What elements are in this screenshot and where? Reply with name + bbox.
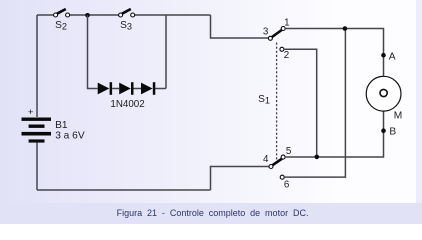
- motor M: [366, 76, 401, 111]
- svg-text:M: M: [394, 111, 403, 122]
- battery B1: [22, 118, 52, 143]
- wire: top rail, S3 to right corner: [135, 14, 211, 16]
- wire: left vertical from top rail to battery +: [36, 15, 38, 117]
- node: junction wire1 / wire6: [343, 26, 348, 31]
- wire: diode branch right riser: [165, 15, 167, 89]
- wire: contact 6 up to node on wire 1: [284, 29, 345, 178]
- wire: diode branch left drop: [88, 15, 98, 89]
- svg-text:6: 6: [284, 179, 290, 190]
- wire: top-right step down to pole 3: [211, 15, 269, 38]
- svg-text:S1: S1: [258, 94, 270, 106]
- svg-text:2: 2: [284, 50, 289, 61]
- svg-text:3 a 6V: 3 a 6V: [55, 130, 85, 141]
- node A: [381, 53, 386, 58]
- contact 2: [280, 47, 284, 51]
- wire: contact 5 to motor terminal B: [285, 112, 384, 158]
- wire: contact 1 to motor terminal A: [285, 29, 383, 77]
- wire: contact 2 down to node on wire 5: [284, 49, 317, 157]
- wire: diode row connections: [155, 88, 166, 90]
- switch S1 pole 3 to contact 1 lever: [272, 30, 282, 37]
- svg-text:1: 1: [284, 18, 289, 29]
- diode D2: [119, 82, 141, 95]
- svg-text:+: +: [28, 107, 34, 118]
- svg-text:S2: S2: [55, 20, 67, 32]
- wire: top rail, S2 to S3: [69, 14, 118, 16]
- node: junction wire5 / wire2: [315, 155, 320, 160]
- svg-text:B1: B1: [55, 120, 68, 131]
- node B: [381, 128, 386, 133]
- svg-text:Figura 21 - Controle completo: Figura 21 - Controle completo de motor D…: [117, 208, 309, 218]
- switch S3: [119, 9, 135, 17]
- switch S1 pole 3 contact: [268, 36, 272, 40]
- mechanical link S1 (dashed): [276, 43, 278, 160]
- wire: bottom-right step up to pole 4: [211, 167, 269, 191]
- switch S1 pole 4 to contact 5 lever: [273, 159, 283, 166]
- contact 6: [280, 175, 284, 179]
- svg-text:3: 3: [263, 27, 269, 38]
- svg-text:1N4002: 1N4002: [110, 99, 144, 110]
- svg-text:5: 5: [286, 146, 292, 157]
- diode D1: [98, 82, 120, 95]
- svg-text:S3: S3: [120, 20, 132, 32]
- switch S1 pole 4 contact: [269, 165, 273, 169]
- svg-text:B: B: [389, 127, 396, 138]
- contact 5: [281, 155, 285, 159]
- wire: bottom rail: [37, 189, 211, 191]
- contact 1: [281, 27, 285, 31]
- switch S2: [54, 9, 70, 17]
- svg-text:4: 4: [263, 154, 269, 165]
- diode D3: [141, 82, 155, 95]
- wire: battery - down to bottom rail: [36, 143, 38, 190]
- svg-text:A: A: [389, 52, 396, 63]
- wire: top rail, left corner to S2: [37, 14, 54, 16]
- node: junction between S2 and S3: [85, 13, 90, 18]
